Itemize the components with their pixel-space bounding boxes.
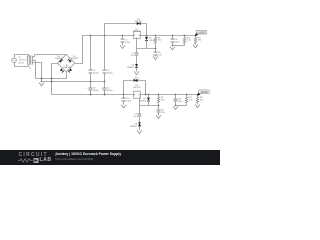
diode D4	[134, 79, 138, 82]
ground	[39, 82, 44, 86]
svg-text:60 Hz: 60 Hz	[19, 62, 24, 64]
svg-text:1000u: 1000u	[107, 73, 114, 75]
wire +15V rail	[141, 35, 196, 37]
voltage source V1	[12, 57, 26, 64]
svg-text:1N4007: 1N4007	[55, 58, 63, 60]
svg-text:100u: 100u	[175, 41, 181, 43]
ground	[153, 56, 158, 60]
svg-text:OUT: OUT	[137, 35, 140, 37]
svg-text:1N4007: 1N4007	[63, 67, 71, 69]
capacitor C9	[133, 106, 141, 118]
zener D5	[145, 36, 157, 49]
ground	[170, 46, 175, 50]
node flag +15V	[195, 30, 207, 36]
junction	[146, 35, 148, 37]
junction	[175, 105, 177, 107]
junction	[172, 35, 174, 37]
footer title text	[56, 152, 122, 156]
capacitor C7	[130, 49, 138, 58]
diode bridge bottom-right	[69, 68, 72, 71]
junction	[123, 94, 125, 96]
resistor R1	[154, 36, 162, 49]
svg-text:1000u: 1000u	[107, 90, 114, 92]
junction	[90, 81, 92, 83]
diode bridge bottom-left	[60, 68, 63, 71]
ground	[193, 44, 198, 48]
diode D3	[137, 22, 141, 25]
zener D6	[139, 95, 150, 106]
junction	[41, 81, 43, 83]
svg-text:0.33u: 0.33u	[126, 101, 132, 103]
bridge rectifier B1	[55, 54, 79, 72]
ground	[120, 45, 125, 49]
junction	[158, 105, 160, 107]
capacitor C4	[101, 82, 113, 95]
svg-text:1N4007: 1N4007	[134, 21, 142, 23]
junction	[155, 48, 157, 50]
diode D8	[130, 123, 141, 129]
footer url text	[56, 157, 94, 161]
svg-text:1000u: 1000u	[93, 90, 100, 92]
junction	[175, 94, 177, 96]
wire positive bypass loop	[105, 24, 147, 36]
diode D7	[127, 64, 138, 69]
svg-text:1000u: 1000u	[93, 73, 100, 75]
node flag -15V	[197, 90, 209, 96]
diode bridge top-right	[69, 60, 72, 63]
transformer T1	[27, 55, 33, 69]
capacitor C1	[87, 36, 99, 82]
wire secondary tap to bridge bottom	[32, 61, 67, 79]
ground	[173, 106, 178, 110]
svg-text:IN: IN	[134, 95, 135, 97]
capacitor C10	[122, 95, 132, 104]
resistor R5	[194, 36, 202, 44]
ground	[134, 71, 139, 75]
capacitor C6	[169, 36, 180, 46]
wire ground rail	[42, 81, 105, 83]
junction	[155, 35, 157, 37]
svg-text:+15VDC: +15VDC	[197, 32, 206, 34]
junction	[104, 94, 106, 96]
resistor R4	[185, 95, 193, 106]
capacitor C2	[101, 36, 113, 82]
capacitor C8	[154, 49, 163, 57]
wire regulator2 ground node	[140, 99, 159, 106]
resistor R2	[157, 95, 165, 106]
capacitor C5	[121, 36, 131, 45]
capacitor C11	[157, 106, 166, 115]
CircuitLab logo	[19, 152, 48, 158]
svg-text:1N5352: 1N5352	[139, 101, 147, 103]
junction	[104, 35, 106, 37]
svg-text:0.33u: 0.33u	[125, 42, 131, 44]
svg-text:1N4007: 1N4007	[127, 67, 135, 69]
ground	[137, 130, 142, 134]
junction	[172, 45, 174, 47]
junction	[184, 35, 186, 37]
junction	[148, 94, 150, 96]
junction	[197, 94, 199, 96]
svg-text:OUT: OUT	[137, 95, 140, 97]
regulator U1	[133, 28, 142, 38]
wire output bus	[173, 45, 185, 47]
junction	[158, 94, 160, 96]
junction	[90, 94, 92, 96]
junction	[51, 81, 53, 83]
wire -15V rail	[141, 94, 198, 96]
wire bridge right to positive rail	[75, 36, 134, 64]
svg-text:1N4007: 1N4007	[133, 79, 141, 81]
wire secondary bottom to ground node	[32, 63, 42, 83]
junction	[122, 35, 124, 37]
junction	[145, 94, 147, 96]
wire negative bypass loop	[124, 81, 146, 95]
wire output bus negative	[176, 105, 187, 107]
junction	[104, 81, 106, 83]
wire source bottom to primary	[15, 63, 29, 67]
resistor R6	[196, 95, 204, 104]
footer bar	[0, 150, 220, 165]
ground	[156, 115, 161, 119]
ground	[195, 104, 200, 108]
svg-text:1N4007: 1N4007	[71, 58, 79, 60]
wire source top to primary	[15, 55, 29, 58]
svg-text:-15VDC: -15VDC	[200, 92, 209, 94]
junction	[195, 35, 197, 37]
junction	[41, 78, 43, 80]
svg-text:1N4007: 1N4007	[130, 126, 138, 128]
wire secondary top to bridge apex	[32, 55, 67, 57]
svg-text:LM7915: LM7915	[133, 87, 142, 89]
wire regulator ground node	[137, 39, 156, 49]
svg-text:100u: 100u	[178, 101, 184, 103]
capacitor C12	[172, 95, 183, 106]
junction	[51, 78, 53, 80]
diode bridge top-left	[59, 60, 62, 63]
ground	[121, 104, 126, 108]
junction	[90, 35, 92, 37]
regulator U2	[133, 85, 142, 99]
svg-text:IN: IN	[134, 35, 135, 37]
junction	[186, 94, 188, 96]
wire bridge left to negative rail	[52, 64, 134, 95]
capacitor C3	[87, 82, 99, 95]
resistor R3	[183, 36, 191, 46]
